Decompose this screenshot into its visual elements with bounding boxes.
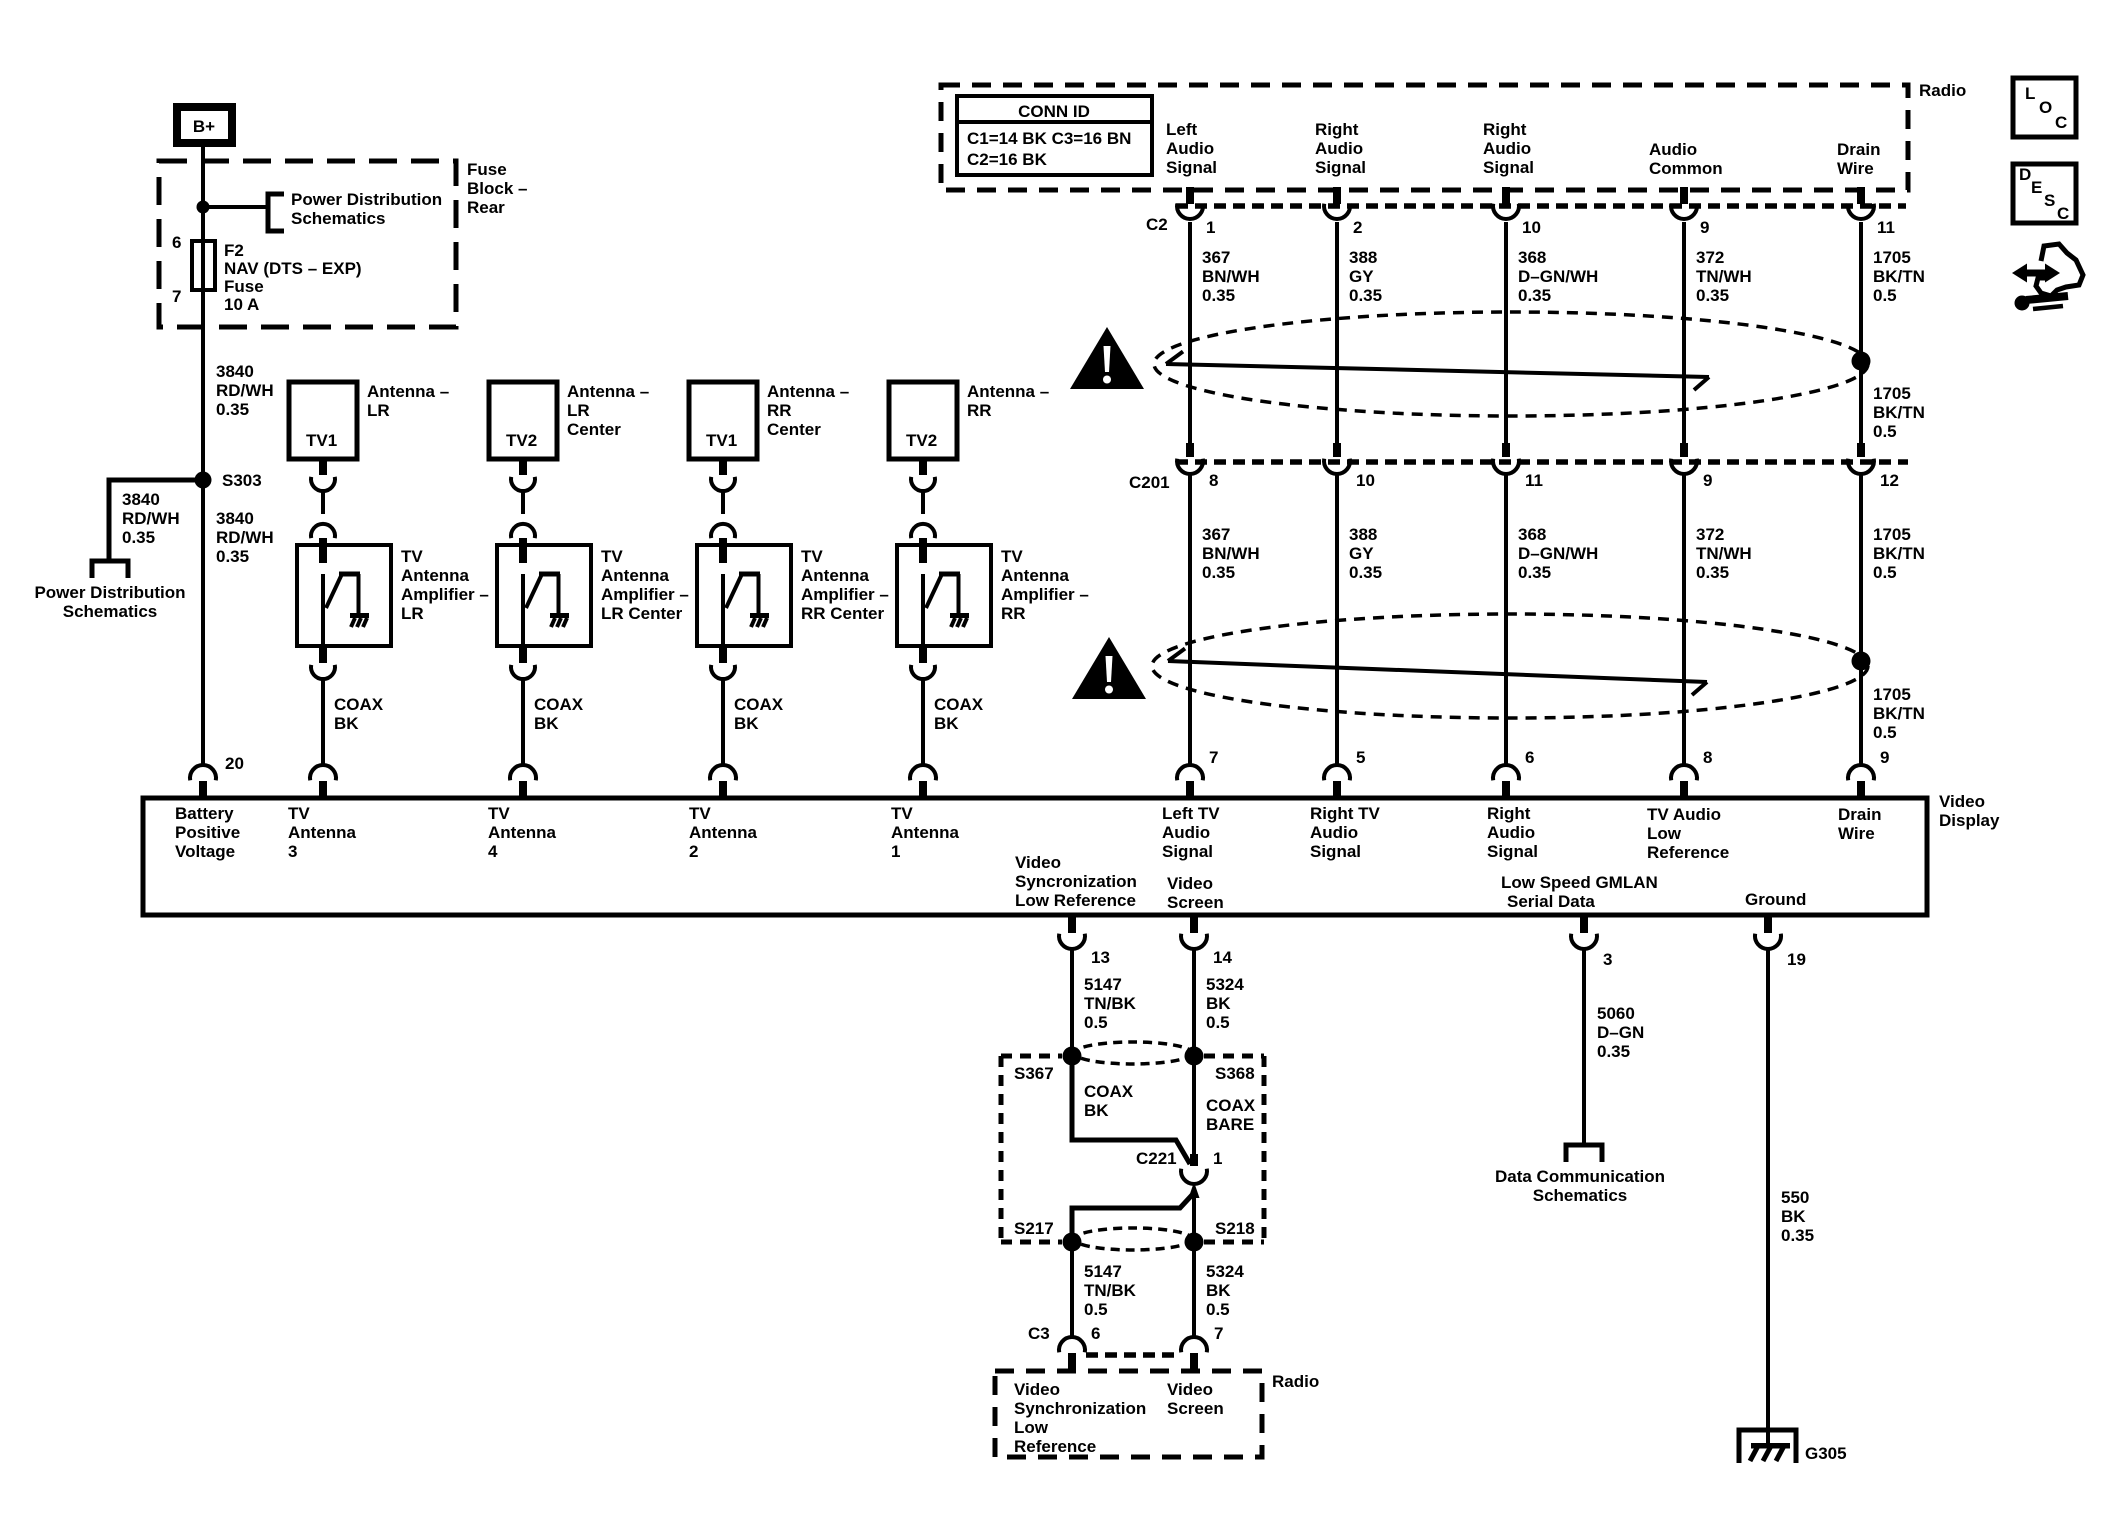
connector antenna LR Center to coax (mated pair) [511,459,535,551]
wire S217 to C3 pin 6 [1070,1242,1074,1338]
svg-text:BK: BK [1206,1281,1231,1300]
connector coax LR Center into video display [510,765,536,798]
amplifier LR Center internal symbol [519,545,569,646]
svg-text:COAX: COAX [334,695,384,714]
wire coax BARE S368 to C221 [1190,1056,1198,1166]
label Right Audio Signal (2) [1483,120,1534,177]
label C3 [1028,1324,1050,1343]
splice ellipse lower [1074,1228,1192,1250]
svg-text:C1=14 BK C3=16 BN: C1=14 BK C3=16 BN [967,129,1131,148]
svg-text:Drain: Drain [1838,805,1881,824]
svg-text:Audio: Audio [1166,139,1214,158]
pin 7 fuse [172,287,181,306]
svg-text:Antenna –: Antenna – [967,382,1049,401]
svg-text:G305: G305 [1805,1444,1847,1463]
svg-text:C3: C3 [1028,1324,1050,1343]
svg-text:1705: 1705 [1873,384,1911,403]
svg-text:COAX: COAX [1084,1082,1134,1101]
svg-text:2: 2 [689,842,698,861]
connector C3 cavity 7 [1181,1337,1207,1372]
wire fuse to S303 [201,207,205,480]
svg-text:COAX: COAX [1206,1096,1256,1115]
label 5324 BK 0.5 (lower) [1206,1262,1244,1319]
svg-text:6: 6 [172,233,181,252]
connector C201 cavity audio common [1671,443,1697,474]
label 5147 TN/BK 0.5 (upper) [1084,975,1137,1032]
svg-text:Antenna –: Antenna – [567,382,649,401]
svg-text:0.35: 0.35 [216,547,249,566]
label Power Distribution Schematics (bottom left) [34,583,185,621]
wire coax BK S367 to C221 [1072,1056,1190,1164]
connector row C2 dotted line [1176,203,1906,209]
svg-text:Video: Video [1014,1380,1060,1399]
svg-text:TV: TV [891,804,913,823]
label COAX BK (splice) [1084,1082,1134,1120]
label Antenna LR [367,382,449,420]
wire audio common C201 to video display [1682,473,1686,766]
connector right audio 2 into video display [1493,765,1519,798]
svg-text:10: 10 [1522,218,1541,237]
svg-text:Wire: Wire [1837,159,1874,178]
label COAX BK (LR) [334,695,384,733]
svg-text:Syncronization: Syncronization [1015,872,1137,891]
svg-text:Amplifier –: Amplifier – [1001,585,1089,604]
label 368 D–GN/WH 0.35 (row1) [1518,248,1598,305]
label 5324 BK 0.5 (upper) [1206,975,1244,1032]
svg-text:20: 20 [225,754,244,773]
label TV Antenna 2 [689,804,758,861]
wire right audio 2 C201 to video display [1504,473,1508,766]
svg-text:Signal: Signal [1162,842,1213,861]
svg-text:LR: LR [367,401,390,420]
label S368 [1215,1064,1255,1083]
svg-text:372: 372 [1696,248,1724,267]
svg-text:BARE: BARE [1206,1115,1254,1134]
connector amplifier LR Center output [511,646,535,679]
pin 6 fuse [172,233,181,252]
svg-text:Amplifier –: Amplifier – [401,585,489,604]
connector coax RR Center into video display [710,765,736,798]
connector amplifier RR Center output [711,646,735,679]
wire left audio C201 to video display [1188,473,1192,766]
label 368 D–GN/WH 0.35 (row2) [1518,525,1598,582]
svg-text:BK: BK [934,714,959,733]
svg-text:RR: RR [967,401,992,420]
connector coax RR into video display [910,765,936,798]
svg-text:RD/WH: RD/WH [122,509,180,528]
TV antenna amplifier RR box U4 [897,545,991,646]
drain arrow annotation (upper) [1166,352,1709,391]
label Low Speed GMLAN Serial Data [1501,873,1658,911]
pin 1 C2 [1206,218,1215,237]
svg-text:TN/WH: TN/WH [1696,544,1752,563]
svg-text:388: 388 [1349,248,1377,267]
svg-text:12: 12 [1880,471,1899,490]
svg-text:372: 372 [1696,525,1724,544]
svg-text:0.5: 0.5 [1873,723,1897,742]
svg-text:388: 388 [1349,525,1377,544]
label 372 TN/WH 0.35 (row2) [1696,525,1752,582]
svg-text:0.5: 0.5 [1206,1013,1230,1032]
svg-text:368: 368 [1518,525,1546,544]
svg-text:RD/WH: RD/WH [216,381,274,400]
svg-text:14: 14 [1213,948,1232,967]
svg-text:Antenna: Antenna [401,566,470,585]
label Data Communication Schematics [1495,1167,1665,1205]
connector C2 cavity audio common [1671,187,1697,219]
label COAX BARE [1206,1096,1256,1134]
svg-text:1705: 1705 [1873,685,1911,704]
svg-text:5147: 5147 [1084,975,1122,994]
svg-text:Amplifier –: Amplifier – [801,585,889,604]
svg-text:Antenna: Antenna [891,823,960,842]
connector row C3 dashed line [1086,1352,1180,1358]
svg-text:TV: TV [488,804,510,823]
svg-text:TV1: TV1 [306,431,337,450]
connector antenna RR Center to coax (mated pair) [711,459,735,551]
svg-text:550: 550 [1781,1188,1809,1207]
svg-text:TV2: TV2 [506,431,537,450]
svg-text:BN/WH: BN/WH [1202,544,1260,563]
svg-text:Audio: Audio [1483,139,1531,158]
label TV Antenna Amplifier RR Center [801,547,889,623]
svg-text:7: 7 [172,287,181,306]
svg-text:E: E [2031,178,2042,197]
svg-text:9: 9 [1703,471,1712,490]
label TV Antenna 1 [891,804,960,861]
label TV Audio Low Reference [1647,805,1729,862]
svg-text:0.5: 0.5 [1084,1300,1108,1319]
coax wire antenna LR to video display [321,677,325,766]
wire left audio radio to C201 [1188,222,1192,443]
wire C221 to S218 [1192,1196,1196,1242]
svg-text:5: 5 [1356,748,1365,767]
svg-text:7: 7 [1209,748,1218,767]
connector coax LR into video display [310,765,336,798]
coax wire antenna RR to video display [921,677,925,766]
wire drain radio to C201 [1859,222,1863,443]
label S367 [1014,1064,1054,1083]
svg-text:Antenna: Antenna [488,823,557,842]
svg-text:S303: S303 [222,471,262,490]
svg-text:BK: BK [734,714,759,733]
connector row C201 dotted line [1176,459,1908,465]
svg-text:Fuse: Fuse [467,160,507,179]
svg-text:BK: BK [1084,1101,1109,1120]
antenna RR box TV2 [889,382,957,459]
svg-text:0.35: 0.35 [1349,563,1382,582]
svg-text:GY: GY [1349,267,1374,286]
svg-text:O: O [2039,98,2052,117]
wire right audio 1 radio to C201 [1335,222,1339,443]
connector amplifier RR output [911,646,935,679]
pin 8 C201 [1209,471,1218,490]
svg-text:Radio: Radio [1919,81,1966,100]
svg-text:Signal: Signal [1166,158,1217,177]
svg-text:0.5: 0.5 [1873,286,1897,305]
svg-text:D–GN: D–GN [1597,1023,1644,1042]
svg-text:Right: Right [1487,804,1531,823]
label 5147 TN/BK 0.5 (lower) [1084,1262,1137,1319]
svg-text:Video: Video [1015,853,1061,872]
svg-text:0.35: 0.35 [1518,563,1551,582]
label C201 [1129,473,1170,492]
wire pin3 to data communication [1582,950,1586,1145]
svg-text:TN/BK: TN/BK [1084,1281,1137,1300]
svg-text:Antenna –: Antenna – [367,382,449,401]
svg-text:11: 11 [1525,471,1543,490]
svg-text:5324: 5324 [1206,975,1244,994]
shield ellipse (upper) [1154,312,1868,416]
off-page bracket power distribution (top) [268,194,284,231]
svg-text:Data Communication: Data Communication [1495,1167,1665,1186]
svg-text:1: 1 [891,842,900,861]
svg-text:Low Reference: Low Reference [1015,891,1136,910]
svg-text:Signal: Signal [1310,842,1361,861]
connector C2 cavity drain [1848,187,1874,219]
svg-text:3: 3 [288,842,297,861]
svg-text:C221: C221 [1136,1149,1177,1168]
coax wire antenna LR Center to video display [521,677,525,766]
svg-text:Screen: Screen [1167,893,1224,912]
svg-text:Display: Display [1939,811,2000,830]
label F2 NAV (DTS - EXP) Fuse 10 A [224,241,362,314]
svg-text:13: 13 [1091,948,1110,967]
label 367 BN/WH 0.35 (row2) [1202,525,1260,582]
label Radio (top) [1919,81,1966,100]
pin 10 C2 [1522,218,1541,237]
svg-text:BK/TN: BK/TN [1873,704,1925,723]
svg-text:367: 367 [1202,525,1230,544]
svg-text:S368: S368 [1215,1064,1255,1083]
svg-text:7: 7 [1214,1324,1223,1343]
svg-text:Low Speed GMLAN: Low Speed GMLAN [1501,873,1658,892]
svg-text:D–GN/WH: D–GN/WH [1518,267,1598,286]
svg-text:Signal: Signal [1487,842,1538,861]
svg-text:C: C [2057,204,2069,223]
svg-text:Positive: Positive [175,823,240,842]
label Video Syncronization Low Reference [1015,853,1137,910]
svg-text:0.35: 0.35 [1349,286,1382,305]
label 372 TN/WH 0.35 (row1) [1696,248,1752,305]
radio dashed box (bottom) [995,1371,1262,1457]
label 1705 BK/TN 0.5 (drain lower) [1873,685,1925,742]
wire S303 branch left [109,480,203,559]
wire pin13 to S367 [1070,950,1074,1056]
svg-text:Wire: Wire [1838,824,1875,843]
label Left Audio Signal [1166,120,1217,177]
svg-text:367: 367 [1202,248,1230,267]
label Antenna RR Center [767,382,849,439]
svg-text:L: L [2025,84,2035,103]
svg-text:BK/TN: BK/TN [1873,267,1925,286]
svg-text:0.35: 0.35 [1696,286,1729,305]
pin 9 video display [1880,748,1889,767]
svg-text:Battery: Battery [175,804,234,823]
svg-text:Antenna: Antenna [1001,566,1070,585]
label Battery Positive Voltage [175,804,240,861]
svg-text:6: 6 [1525,748,1534,767]
svg-text:Drain: Drain [1837,140,1880,159]
svg-text:Reference: Reference [1647,843,1729,862]
svg-text:2: 2 [1353,218,1362,237]
svg-text:Video: Video [1939,792,1985,811]
svg-text:C2: C2 [1146,215,1168,234]
svg-text:TV: TV [401,547,423,566]
svg-text:LR Center: LR Center [601,604,683,623]
connector drain into video display [1848,765,1874,798]
label S218 [1215,1219,1255,1238]
pin 9 C2 [1700,218,1709,237]
pin 19 below video display [1787,950,1806,969]
wire right audio 1 C201 to video display [1335,473,1339,766]
svg-text:0.35: 0.35 [1202,286,1235,305]
svg-text:Signal: Signal [1315,158,1366,177]
label Video Display [1939,792,2000,830]
svg-text:TV: TV [1001,547,1023,566]
wire drain C201 to video display [1859,473,1863,766]
svg-text:S217: S217 [1014,1219,1054,1238]
label TV Antenna 4 [488,804,557,861]
svg-text:19: 19 [1787,950,1806,969]
svg-text:TN/WH: TN/WH [1696,267,1752,286]
label G305 [1805,1444,1847,1463]
svg-text:Audio: Audio [1162,823,1210,842]
label Right TV Audio Signal [1310,804,1381,861]
svg-text:3: 3 [1603,950,1612,969]
svg-text:0.5: 0.5 [1206,1300,1230,1319]
svg-text:C2=16 BK: C2=16 BK [967,150,1048,169]
label 388 GY 0.35 (row2) [1349,525,1382,582]
label C2 [1146,215,1168,234]
label S303 [222,471,262,490]
label Fuse Block Rear [467,160,527,217]
label wire 3840 RD/WH 0.35 (upper) [216,362,274,419]
svg-text:S: S [2044,191,2055,210]
svg-text:Right: Right [1315,120,1359,139]
svg-text:F2: F2 [224,241,244,260]
svg-text:0.35: 0.35 [1597,1042,1630,1061]
svg-text:COAX: COAX [934,695,984,714]
svg-text:Common: Common [1649,159,1723,178]
node S217 [1063,1233,1082,1252]
label Right Audio Signal (video display) [1487,804,1538,861]
label TV Antenna 3 [288,804,357,861]
label COAX BK (LR Center) [534,695,584,733]
svg-text:LR: LR [401,604,424,623]
pin 13 below video display [1091,948,1110,967]
label TV Antenna Amplifier LR Center [601,547,689,623]
svg-text:TV Audio: TV Audio [1647,805,1721,824]
svg-text:1705: 1705 [1873,248,1911,267]
connector amplifier LR output [311,646,335,679]
svg-text:0.35: 0.35 [122,528,155,547]
svg-text:Block –: Block – [467,179,527,198]
pin 11 C2 [1877,218,1895,237]
label 388 GY 0.35 (row1) [1349,248,1382,305]
svg-text:Schematics: Schematics [291,209,386,228]
svg-text:10: 10 [1356,471,1375,490]
TV antenna amplifier LR box U1 [297,545,391,646]
svg-text:TV1: TV1 [706,431,737,450]
svg-text:Antenna –: Antenna – [767,382,849,401]
pin 14 below video display [1213,948,1232,967]
label 3840 RD/WH 0.35 (below S303) [216,509,274,566]
wire branch to power distribution reference [203,205,266,209]
pin 1 C221 [1213,1149,1222,1168]
svg-text:368: 368 [1518,248,1546,267]
label Left TV Audio Signal [1162,804,1220,861]
svg-text:C: C [2055,113,2067,132]
svg-text:BK/TN: BK/TN [1873,544,1925,563]
wire audio common radio to C201 [1682,222,1686,443]
pin 7 video display [1209,748,1218,767]
svg-text:Schematics: Schematics [1533,1186,1628,1205]
connector audio common into video display [1671,765,1697,798]
svg-text:Antenna: Antenna [601,566,670,585]
label Radio (bottom) [1272,1372,1319,1391]
DESC navigation box [2013,164,2076,223]
TV antenna amplifier LR Center box U2 [497,545,591,646]
off-page bracket data communication [1566,1145,1602,1162]
svg-text:Audio: Audio [1487,823,1535,842]
svg-text:Serial Data: Serial Data [1507,892,1595,911]
svg-text:Voltage: Voltage [175,842,235,861]
svg-text:NAV (DTS – EXP): NAV (DTS – EXP) [224,259,362,278]
connector video display pin 3 [1571,915,1597,949]
svg-text:Low: Low [1647,824,1682,843]
svg-text:B+: B+ [193,117,215,136]
svg-text:RR: RR [767,401,792,420]
svg-text:Center: Center [567,420,621,439]
svg-text:5060: 5060 [1597,1004,1635,1023]
pin 3 below video display [1603,950,1612,969]
TV antenna amplifier RR Center box U3 [697,545,791,646]
battery feed B+ terminal [177,107,232,143]
label Drain Wire (radio) [1837,140,1880,178]
label Right Audio Signal (1) [1315,120,1366,177]
pin 9 C201 [1703,471,1712,490]
pin 5 video display [1356,748,1365,767]
label 550 BK 0.35 [1781,1188,1814,1245]
antenna RR Center box TV1 [689,382,757,459]
pin 8 video display [1703,748,1712,767]
svg-text:COAX: COAX [534,695,584,714]
wire pin19 to ground G305 [1766,950,1770,1446]
svg-text:1: 1 [1213,1149,1222,1168]
label 367 BN/WH 0.35 (row1) [1202,248,1260,305]
warning triangle (upper) [1070,327,1144,389]
wire right audio 2 radio to C201 [1504,222,1508,443]
svg-text:Reference: Reference [1014,1437,1096,1456]
svg-text:RR Center: RR Center [801,604,885,623]
label Power Distribution Schematics (top) [291,190,442,228]
svg-text:Antenna: Antenna [288,823,357,842]
svg-text:BN/WH: BN/WH [1202,267,1260,286]
connector left audio into video display [1177,765,1203,798]
label Antenna RR [967,382,1049,420]
hand flip icon [2012,244,2083,311]
pin 12 C201 [1880,471,1899,490]
wire S218 to C3 pin 7 [1192,1242,1196,1338]
svg-text:RD/WH: RD/WH [216,528,274,547]
svg-text:Antenna: Antenna [689,823,758,842]
svg-text:S218: S218 [1215,1219,1255,1238]
svg-text:Center: Center [767,420,821,439]
svg-text:Rear: Rear [467,198,505,217]
connector C201 cavity right audio 1 [1324,443,1350,474]
svg-text:0.5: 0.5 [1873,563,1897,582]
